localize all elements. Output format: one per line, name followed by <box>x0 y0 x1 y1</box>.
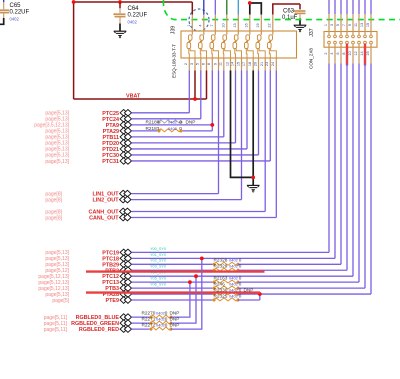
resistor R2272 <box>151 327 171 330</box>
J37 pin circles col 6 <box>358 35 361 38</box>
svg-text:2: 2 <box>324 52 328 54</box>
J39 bottom stubs col 7 <box>258 58 260 71</box>
svg-text:11: 11 <box>354 23 358 27</box>
J37 pin circles col 3 <box>340 35 343 38</box>
J39 top pin stub 1 <box>191 15 193 35</box>
wire PTD21 vertical from J39 <box>246 71 248 149</box>
junction GND <box>251 176 255 180</box>
junction VBAT at C64 <box>118 0 122 4</box>
wire PTC31 <box>132 160 271 162</box>
svg-text:0: 0 <box>165 317 168 322</box>
wire PTC30 vertical from J39 <box>258 71 260 155</box>
svg-text:ESQ-108-33-T-T: ESQ-108-33-T-T <box>172 44 177 78</box>
wire PTC25 <box>132 112 190 114</box>
wire PTA29 to R2183 <box>132 130 160 132</box>
svg-text:17: 17 <box>242 62 246 66</box>
svg-text:Y06_SY0: Y06_SY0 <box>150 283 166 287</box>
J39 socket column 3 <box>210 35 219 58</box>
svg-text:0402: 0402 <box>168 126 178 131</box>
J39 bottom stubs col 5 <box>235 58 237 71</box>
svg-text:6: 6 <box>201 63 205 65</box>
wire VBAT top rail <box>74 1 193 3</box>
svg-text:CANL_OUT: CANL_OUT <box>89 216 119 222</box>
wire PTD20 vertical from J39 <box>235 71 237 143</box>
highlight bar PTB3 net <box>86 291 260 293</box>
junction PTA9/PTA29 net <box>210 123 214 127</box>
J37 stubs col 7 <box>364 14 366 35</box>
svg-text:DNP: DNP <box>170 311 180 316</box>
wire J37 pin 12 to PTC13 <box>358 64 360 283</box>
svg-text:4: 4 <box>330 52 334 54</box>
svg-text:J37: J37 <box>309 28 315 36</box>
off-page connector CANL_OUT <box>120 214 127 221</box>
svg-text:Y03_SY0: Y03_SY0 <box>150 265 166 269</box>
svg-text:10: 10 <box>348 51 352 55</box>
connector J37 body <box>324 32 377 48</box>
wire PTB3 right <box>238 287 365 289</box>
svg-text:24: 24 <box>271 62 275 66</box>
wire to J37 top pin 11 <box>358 0 360 14</box>
svg-text:DNP: DNP <box>170 323 180 328</box>
resistor R2328 <box>214 262 238 265</box>
wire PTC31 vertical from J39 <box>269 71 271 161</box>
wire RGBLED0_GREEN left <box>132 322 152 324</box>
off-page connector PTC25 <box>120 110 127 117</box>
svg-text:19: 19 <box>256 23 260 27</box>
wire J39 pin 22 to C63 <box>273 4 300 15</box>
svg-text:page[5,13]: page[5,13] <box>45 159 69 165</box>
off-page connector LIN1_OUT <box>120 190 127 197</box>
J39 socket column 8 <box>268 35 277 58</box>
svg-text:12: 12 <box>354 51 358 55</box>
wire PTC12 <box>132 275 354 277</box>
off-page connector PTC12 <box>120 273 127 280</box>
svg-text:0402: 0402 <box>229 258 239 263</box>
wire to J37 top pin 3 <box>334 0 336 14</box>
wire PTA28 right <box>238 293 371 295</box>
highlight bar PTB2 net <box>86 270 265 272</box>
wire PTB2 right <box>238 269 347 271</box>
highlight bar J37 pin 14 <box>364 44 366 66</box>
off-page connector PTB29 <box>120 261 127 268</box>
wire J37 pin 6 to PTB29 <box>340 64 342 265</box>
J37 bottom pin numbers <box>324 51 370 55</box>
svg-text:PTC31: PTC31 <box>102 159 119 165</box>
svg-text:0.22UF: 0.22UF <box>10 10 30 16</box>
highlight bar J37 pin 8 <box>346 44 348 66</box>
wire PTD20 <box>132 142 236 144</box>
svg-text:0402: 0402 <box>229 282 239 287</box>
svg-text:7: 7 <box>342 24 346 26</box>
svg-text:15: 15 <box>366 23 370 27</box>
svg-text:C63: C63 <box>283 9 295 15</box>
wire VBAT to J39 pin 1 <box>191 2 193 15</box>
wire VBAT bottom rail <box>74 98 207 100</box>
junction RGBLED0_BLUE <box>188 280 192 284</box>
wire PTC19 <box>132 251 330 253</box>
ground below C64 <box>114 30 127 32</box>
J37 pin circles col 8 <box>370 35 373 38</box>
off-page connector PTC31 <box>120 158 127 165</box>
svg-text:C64: C64 <box>128 6 140 12</box>
off-page connector RGBLED0_GREEN <box>120 320 127 327</box>
svg-text:14: 14 <box>230 62 234 66</box>
wire PTA9 <box>132 124 213 126</box>
wire RGBLED0_BLUE right <box>171 282 190 317</box>
junction PTE9/PTA28 <box>258 292 262 296</box>
wire GND from J39 pin 18 <box>252 71 254 186</box>
resistor R2270 <box>151 315 171 318</box>
wire PTC24 vertical from J39 <box>200 71 202 119</box>
J39 socket column 6 <box>245 35 254 58</box>
wire R2183 to J39 <box>181 130 212 132</box>
J39 top pin numbers <box>187 23 272 27</box>
J37 stubs col 5 <box>352 14 354 35</box>
wire PTB11 vertical from J39 <box>223 71 225 137</box>
junction RGBLED0_GREEN <box>194 274 198 278</box>
svg-text:18: 18 <box>248 62 252 66</box>
svg-text:C65: C65 <box>10 3 22 9</box>
J39 top pin stub 4 <box>226 15 228 35</box>
J39 bottom stubs col 4 <box>223 58 225 71</box>
resistor R246 <box>214 286 238 289</box>
wire to J37 top pin 13 <box>364 0 366 14</box>
svg-text:21: 21 <box>260 62 264 66</box>
wire PTC25 vertical from J39 <box>188 71 190 113</box>
wire to J37 top pin 15 <box>370 0 372 14</box>
J39 bottom pin numbers <box>184 62 275 66</box>
svg-text:R2163: R2163 <box>214 276 228 281</box>
J37 pin circles col 5 <box>352 35 355 38</box>
ground symbol <box>247 184 260 186</box>
svg-text:R246: R246 <box>214 282 226 287</box>
svg-text:Y00_SY0: Y00_SY0 <box>150 247 166 251</box>
svg-text:16: 16 <box>245 23 249 27</box>
off-page connector RGBLED0_BLUE <box>120 314 127 321</box>
svg-text:R2328: R2328 <box>214 258 228 263</box>
svg-text:PTE9: PTE9 <box>106 298 119 304</box>
off-page connector RGBLED0_RED <box>120 326 127 333</box>
svg-text:page[8]: page[8] <box>45 215 62 221</box>
J37 stubs col 8 <box>370 14 372 35</box>
wire J37 pin 2 to PTC19 <box>328 64 330 253</box>
svg-text:6: 6 <box>336 52 340 54</box>
svg-text:R2272: R2272 <box>142 323 156 328</box>
svg-text:0: 0 <box>179 120 182 125</box>
green dashed net highlight <box>163 0 400 20</box>
J39 top pin stub 2 <box>203 15 205 35</box>
off-page connector PTB3 <box>120 285 127 292</box>
J39 socket column 2 <box>199 35 207 58</box>
svg-text:0: 0 <box>239 293 242 298</box>
wire to J37 top pin 1 <box>328 0 330 14</box>
J39 bottom stubs col 8 <box>269 58 271 71</box>
off-page connector PTA9 <box>120 122 127 129</box>
J39 top pin stub 6 <box>249 15 251 35</box>
svg-text:4: 4 <box>199 24 203 26</box>
svg-text:0: 0 <box>165 311 168 316</box>
svg-text:LIN2_OUT: LIN2_OUT <box>92 198 119 204</box>
svg-text:0: 0 <box>239 258 242 263</box>
svg-text:0: 0 <box>165 323 168 328</box>
svg-text:23: 23 <box>265 62 269 66</box>
wire CANH_OUT vertical <box>264 71 266 212</box>
wire C65 to edge <box>0 18 4 24</box>
J39 bottom stubs col 1 <box>188 58 190 71</box>
svg-text:22: 22 <box>268 23 272 27</box>
wire to J37 top pin 9 <box>352 0 354 14</box>
wire to J39 pin 10 <box>226 0 228 15</box>
off-page connector PTC24 <box>120 116 127 123</box>
svg-text:Y02_SY0: Y02_SY0 <box>150 259 166 263</box>
svg-text:R2180: R2180 <box>146 120 160 125</box>
off-page connector PTD20 <box>120 140 127 147</box>
J37 stubs col 4 <box>346 14 348 35</box>
resistor R2325 <box>214 298 238 301</box>
wire PTE9 left <box>132 299 215 301</box>
svg-text:8: 8 <box>342 52 346 54</box>
wire PTC30 <box>132 154 259 156</box>
wire J37 pin 8 to PTB2 <box>346 64 348 271</box>
wire LIN2_OUT vertical <box>241 71 243 200</box>
wire J37 pin 10 to PTC12 <box>352 64 354 277</box>
svg-text:0402: 0402 <box>10 16 20 21</box>
off-page connector PTB11 <box>120 134 127 141</box>
junction VBAT top-left <box>72 0 76 4</box>
resistor R2183 <box>159 129 181 132</box>
wire to J39 pin 13 <box>237 0 239 15</box>
svg-text:3: 3 <box>190 63 194 65</box>
svg-text:8: 8 <box>207 63 211 65</box>
svg-text:1: 1 <box>187 24 191 26</box>
wire PTE9 right <box>238 299 260 301</box>
ground below C63 <box>294 24 307 26</box>
svg-text:3: 3 <box>330 24 334 26</box>
svg-text:R2183: R2183 <box>146 126 160 131</box>
wire GND from J39 pin 12 <box>231 71 254 178</box>
wire RGBLED0_GREEN right <box>171 276 196 323</box>
J39 socket column 4 <box>222 35 231 58</box>
svg-text:VBAT: VBAT <box>126 93 141 99</box>
svg-text:0: 0 <box>239 282 242 287</box>
svg-text:CON_2X8: CON_2X8 <box>309 48 314 69</box>
wire PTA28 left <box>132 293 215 295</box>
J37 pin circles col 4 <box>346 35 349 38</box>
wire PTE9 up to PTA28 net <box>259 294 261 300</box>
J39 top pin stub 8 <box>272 15 274 35</box>
J37 stubs col 6 <box>358 14 360 35</box>
svg-text:0402: 0402 <box>128 19 138 24</box>
wire J37 pin 14 to PTB3 <box>364 64 366 289</box>
off-page connector CANH_OUT <box>120 208 127 215</box>
svg-text:20: 20 <box>253 62 257 66</box>
wire CANL_OUT vertical <box>275 71 277 218</box>
svg-text:2: 2 <box>184 63 188 65</box>
svg-text:15: 15 <box>236 62 240 66</box>
capacitor C63 <box>299 8 301 11</box>
svg-text:R2271: R2271 <box>142 317 156 322</box>
wire J37 pin 4 to PTC18 <box>334 64 336 259</box>
wire CANL_OUT <box>132 217 277 219</box>
wire to J37 top pin 5 <box>340 0 342 14</box>
J39 top pin stub 3 <box>214 15 216 35</box>
svg-text:R2270: R2270 <box>142 311 156 316</box>
wire VBAT left drop <box>73 2 75 99</box>
off-page connector PTC18 <box>120 255 127 262</box>
wire VBAT to J39 pin 3 <box>206 71 208 100</box>
wire LIN1_OUT <box>132 193 219 195</box>
resistor R2163 <box>214 280 238 283</box>
off-page connector PTA29 <box>120 128 127 135</box>
off-page connector LIN2_OUT <box>120 196 127 203</box>
wire PTB3 left <box>132 287 215 289</box>
svg-text:10: 10 <box>222 23 226 27</box>
wire PTA29 vertical from J39 <box>211 71 213 131</box>
svg-text:Y05_SY0: Y05_SY0 <box>150 277 166 281</box>
J39 bottom stubs col 2 <box>200 58 202 71</box>
J37 stubs col 1 <box>328 14 330 35</box>
wire to J39 pin 4 <box>203 0 205 15</box>
wire CANH_OUT <box>132 211 266 213</box>
wire to J39 pin 7 <box>214 0 216 15</box>
svg-text:0402: 0402 <box>229 293 239 298</box>
J37 top pin numbers <box>324 23 370 27</box>
resistor R2271 <box>151 321 171 324</box>
wire LIN2_OUT <box>132 199 242 201</box>
wire PTB11 <box>132 136 224 138</box>
off-page connector PTC19 <box>120 249 127 256</box>
junction RGBLED0_RED <box>200 256 204 260</box>
wire PTC13 left <box>132 281 215 283</box>
J39 socket column 5 <box>233 35 242 58</box>
J37 pin circles col 7 <box>364 35 367 38</box>
J37 pin circles col 1 <box>328 35 331 38</box>
svg-text:5: 5 <box>336 24 340 26</box>
off-page connector PTE9 <box>120 297 127 304</box>
wire PTC24 <box>132 118 201 120</box>
svg-text:12: 12 <box>225 62 229 66</box>
svg-text:0.22UF: 0.22UF <box>128 13 148 19</box>
svg-text:9: 9 <box>213 63 217 65</box>
svg-text:13: 13 <box>360 23 364 27</box>
wire PTB29 left <box>132 263 215 265</box>
wire RGBLED0_BLUE left <box>132 316 152 318</box>
svg-text:0: 0 <box>179 126 182 131</box>
svg-text:9: 9 <box>348 24 352 26</box>
svg-text:5: 5 <box>196 63 200 65</box>
svg-text:DNP: DNP <box>186 120 196 125</box>
wire J37 pin 16 to PTA28 <box>370 64 372 295</box>
J39 top pin stub 5 <box>237 15 239 35</box>
off-page connector PTA28 <box>120 291 127 298</box>
off-page connector PTC30 <box>120 152 127 159</box>
svg-text:page[5]: page[5] <box>52 298 69 304</box>
svg-text:DNP: DNP <box>170 317 180 322</box>
wire PTD21 <box>132 148 248 150</box>
svg-text:Y01_SY0: Y01_SY0 <box>150 253 166 257</box>
wire VBAT to J39 pin 2 <box>194 71 196 100</box>
capacitor C64 <box>119 2 121 8</box>
svg-text:16: 16 <box>366 51 370 55</box>
blue dashed circle annotation <box>189 9 209 31</box>
wire GND bridge J39 pins 16-19 <box>250 3 261 15</box>
J39 top pin stub 7 <box>260 15 262 35</box>
resistor R2180 (DNP) <box>159 120 181 123</box>
capacitor C65 <box>3 0 5 2</box>
J37 stubs col 3 <box>340 14 342 35</box>
wire PTB2 left <box>132 269 215 271</box>
svg-text:page[5,11]: page[5,11] <box>44 327 68 333</box>
svg-text:RGBLED0_RED: RGBLED0_RED <box>79 327 119 333</box>
svg-text:0: 0 <box>239 276 242 281</box>
J37 stubs col 2 <box>334 14 336 35</box>
J39 bottom stubs col 3 <box>211 58 213 71</box>
wire to J37 top pin 7 <box>346 0 348 14</box>
resistor R2330 <box>214 292 238 295</box>
J39 socket column 7 <box>256 35 265 58</box>
connector J39 body <box>181 31 297 58</box>
junction GND bridge <box>248 1 252 5</box>
svg-text:11: 11 <box>219 62 223 66</box>
wire RGBLED0_RED left <box>132 328 152 330</box>
svg-text:14: 14 <box>360 51 364 55</box>
wire LIN1_OUT vertical <box>218 71 220 194</box>
off-page connector PTB2 <box>120 267 127 274</box>
svg-text:1: 1 <box>324 24 328 26</box>
J39 bottom stubs col 6 <box>246 58 248 71</box>
J39 socket column 1 <box>187 35 195 58</box>
wire PTC18 <box>132 257 336 259</box>
junction VBAT bottom <box>193 97 197 101</box>
off-page connector PTC13 <box>120 279 127 286</box>
svg-text:13: 13 <box>233 23 237 27</box>
svg-text:R2325: R2325 <box>214 293 228 298</box>
svg-text:page[8]: page[8] <box>45 197 62 203</box>
svg-text:0402: 0402 <box>168 120 178 125</box>
svg-text:0402: 0402 <box>229 276 239 281</box>
svg-text:R2329: R2329 <box>214 264 228 269</box>
wire PTC13 right <box>238 281 359 283</box>
svg-text:0402: 0402 <box>229 264 239 269</box>
svg-text:7: 7 <box>210 24 214 26</box>
resistor R2329 <box>214 268 238 271</box>
J37 pin circles col 2 <box>334 35 337 38</box>
wire RGBLED0_RED right <box>171 258 202 329</box>
svg-text:0: 0 <box>239 264 242 269</box>
off-page connector PTD21 <box>120 146 127 153</box>
svg-text:J39: J39 <box>171 26 177 34</box>
wire PTB29 right <box>238 263 341 265</box>
